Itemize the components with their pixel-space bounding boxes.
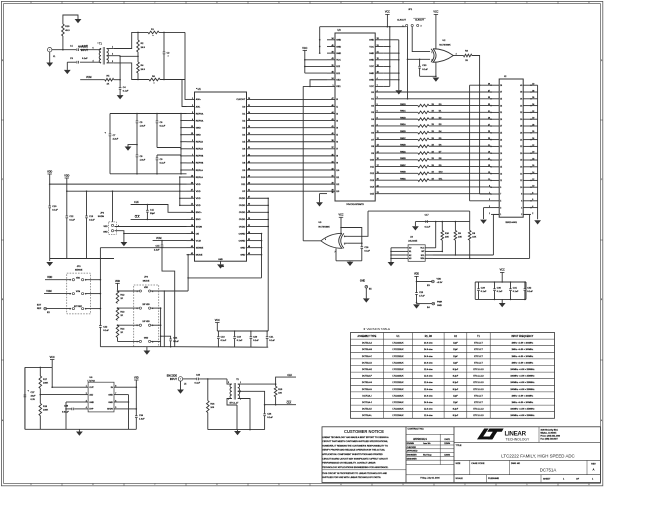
svg-text:VCC: VCC [433,11,438,14]
svg-text:42: 42 [191,253,193,255]
svg-text:CLKOUT: CLKOUT [236,99,246,101]
svg-text:9: 9 [489,186,490,188]
svg-text:1: 1 [240,382,241,384]
svg-text:NC7SV86K: NC7SV86K [319,226,331,228]
resistor R12 1K [116,291,119,303]
wire VDD rail2 [67,190,187,192]
svg-text:REFHB: REFHB [196,156,204,158]
svg-text:Phone: (408) 432-1900: Phone: (408) 432-1900 [541,436,560,438]
svg-text:AIN+: AIN+ [196,98,202,101]
svg-text:30: 30 [520,119,522,121]
svg-text:1: 1 [527,2,528,4]
svg-text:1.0uF: 1.0uF [140,126,146,128]
svg-text:AIN-: AIN- [196,105,201,108]
svg-text:12pF: 12pF [453,349,458,351]
svg-text:VCM: VCM [46,290,51,293]
wire U6 OUT to left node [52,386,80,388]
svg-text:REFLA: REFLA [196,176,204,179]
capacitor C30 0.1uF [494,282,496,289]
svg-text:ETC1-1-13: ETC1-1-13 [473,409,484,411]
svg-text:16: 16 [520,167,522,169]
ground under T2 [237,430,239,431]
svg-text:GND: GND [196,127,201,129]
svg-text:32015-4001: 32015-4001 [505,222,517,224]
wire REFH top rail [110,113,187,115]
node wire T1 pin1 up to R1 rail [114,32,148,48]
svg-text:8: 8 [93,484,94,486]
svg-text:2: 2 [532,213,533,215]
svg-text:17: 17 [488,158,490,160]
svg-text:34: 34 [331,38,333,40]
svg-text:DC751A-J: DC751A-J [362,401,372,404]
svg-text:38: 38 [331,140,333,142]
svg-text:0.1uF: 0.1uF [82,46,88,48]
wire ref pins rail [180,114,182,174]
resistor R2 24.9 [137,32,139,40]
resistor R4 24.9 [137,56,139,62]
svg-text:16: 16 [191,211,193,213]
resistor RN1B 33 [375,118,418,120]
svg-text:CIRCUIT THAT MEETS CUSTOMER-SU: CIRCUIT THAT MEETS CUSTOMER-SUPPLIED SPE… [322,440,388,443]
wire VDD feeder vertical [179,177,181,205]
capacitor C34 1.0uF [135,409,137,416]
capacitor C8 1.0uF [136,145,138,155]
wire U6 IN to V3D rail [122,386,136,388]
svg-text:15: 15 [488,165,490,167]
svg-text:Friday, July 02, 2004: Friday, July 02, 2004 [420,477,440,480]
svg-text:PWR: PWR [437,301,443,303]
wire AIN- vertical to U1 pin 2 [182,80,187,107]
resistor RN1A 33 [375,125,418,127]
svg-text:12.4 ohm: 12.4 ohm [424,409,433,411]
svg-text:CUSTOMER NOTICE: CUSTOMER NOTICE [344,429,384,434]
ground left of J2 [480,220,487,224]
svg-text:GND: GND [437,305,442,307]
wire OE2 jog [310,80,327,87]
svg-text:OGND: OGND [239,240,246,242]
resistor R10 10K [442,221,444,223]
svg-text:1/3 VDD: 1/3 VDD [142,321,150,323]
ground under E5 [363,298,370,302]
svg-text:CLKOUT: CLKOUT [415,20,425,22]
svg-text:29: 29 [500,119,502,121]
svg-text:VDD: VDD [47,170,52,173]
svg-text:VCM: VCM [196,240,201,242]
svg-text:1630 McCarthy Blvd.: 1630 McCarthy Blvd. [541,428,559,431]
svg-text:4.7uF: 4.7uF [419,295,425,297]
svg-text:33: 33 [488,104,490,106]
svg-text:VDD: VDD [76,277,81,279]
svg-text:2: 2 [431,60,432,62]
svg-text:33: 33 [500,105,502,107]
version table grid [351,333,555,419]
svg-text:5: 5 [115,407,116,409]
svg-text:2.2uF: 2.2uF [113,139,119,141]
svg-text:REFHB: REFHB [196,163,204,165]
svg-text:2: 2 [86,393,87,395]
svg-text:LTC2223LK: LTC2223LK [393,349,405,351]
border zone ticks right [600,119,602,121]
capacitor C29 0.1uF [478,282,480,289]
svg-text:38: 38 [520,92,522,94]
svg-text:17: 17 [500,160,502,162]
U2 VCC pin [435,46,437,49]
svg-text:8.2pF: 8.2pF [453,389,459,391]
capacitor C7 2.2uF [109,114,111,135]
resistor RN1D 33 [375,105,418,107]
wire ADJ to divider [40,394,80,396]
svg-text:12.4 ohm: 12.4 ohm [424,389,433,391]
wire T2 pin4 down [227,399,237,406]
wire clock branch to J2 pin 39 [470,84,491,86]
svg-text:47: 47 [191,190,193,192]
wire R19 to ground arrow [63,15,78,24]
svg-text:34: 34 [331,161,333,163]
svg-text:0.1uF: 0.1uF [422,69,428,71]
svg-text:CLK: CLK [287,401,292,404]
capacitor C6 0.1uF [156,114,158,122]
U5 ground pin and rail [335,248,337,260]
capacitor C23 0.1uF [183,378,197,380]
svg-text:BYP: BYP [89,409,94,411]
svg-text:* T1: * T1 [98,43,103,46]
svg-text:GND: GND [360,280,366,283]
svg-text:1: 1 [192,98,193,100]
svg-text:100MHz < A IN < 250MHz: 100MHz < A IN < 250MHz [510,388,534,391]
capacitor C20 0.1uF [250,330,252,332]
resistor R13 1K [116,308,119,320]
wire U3 VCC-group rail to top wire [319,27,321,53]
U2 ground pin [435,62,437,76]
wire T1 pin2 down to VCM node [119,56,121,80]
scale filename sheet row [454,474,600,476]
svg-text:7: 7 [377,85,378,87]
svg-text:VCC: VCC [420,248,425,250]
svg-text:8.2pF: 8.2pF [453,369,459,371]
capacitor C2 [163,32,165,52]
ground under C3 [66,62,68,70]
svg-text:VCC: VCC [336,60,341,62]
svg-text:VCC: VCC [500,269,505,272]
svg-text:12pF: 12pF [453,402,458,404]
svg-text:LTC2223LK: LTC2223LK [393,376,405,378]
svg-text:19: 19 [488,152,490,154]
svg-text:18: 18 [191,225,193,227]
svg-text:0.1uF: 0.1uF [364,250,370,252]
svg-text:DRAWN: DRAWN [407,442,415,445]
svg-text:100MHz < A IN < 250MHz: 100MHz < A IN < 250MHz [510,375,534,378]
svg-text:21: 21 [377,52,379,54]
svg-text:24.9 ohm: 24.9 ohm [424,349,433,351]
svg-text:100MHz < A IN < 250MHz: 100MHz < A IN < 250MHz [510,368,534,371]
svg-text:GND: GND [218,259,223,261]
svg-text:VDD: VDD [115,280,120,283]
svg-text:VDD: VDD [104,226,109,228]
svg-text:1MHz < A IN < 100MHz: 1MHz < A IN < 100MHz [511,394,533,397]
wire clock feed down to U5 input1 [348,211,368,236]
svg-text:6: 6 [217,2,218,4]
svg-text:VCM: VCM [156,237,161,240]
svg-text:5: 5 [228,382,229,384]
svg-text:0.01uF: 0.01uF [62,411,69,413]
node OE wire [124,233,187,235]
svg-text:12pF: 12pF [453,395,458,397]
svg-text:40: 40 [331,133,333,135]
title block outline [322,427,600,483]
svg-text:VCC: VCC [50,356,55,359]
svg-text:1: 1 [86,386,87,388]
svg-text:43: 43 [331,58,333,60]
svg-text:PERFORMANCE OR RELIABILITY. C: PERFORMANCE OR RELIABILITY. CONTACT LINE… [322,462,376,465]
svg-text:1: 1 [527,484,528,486]
svg-text:DC751A-D: DC751A-D [362,361,373,364]
wire U4 VCC to rail [433,247,436,249]
ground under J1 [49,52,51,63]
svg-text:DATE: DATE [445,438,451,441]
svg-text:LTC2224LK: LTC2224LK [393,409,405,411]
svg-text:V3D: V3D [134,376,139,379]
svg-text:4: 4 [521,207,522,209]
svg-text:9: 9 [192,168,193,170]
svg-text:23: 23 [488,138,490,140]
svg-text:7: 7 [500,194,501,196]
svg-text:31: 31 [377,45,379,47]
node wire T1 pin2 to R2/R4 junction [119,55,121,58]
svg-text:0.1uF: 0.1uF [527,291,533,293]
wire encode bottom rail [208,429,265,431]
svg-text:0: 0 [589,2,590,4]
svg-text:0.1uF: 0.1uF [497,291,503,293]
capacitor C33 0.1uF [419,59,421,61]
svg-text:+3.3V: +3.3V [437,282,443,284]
svg-text:ETC1-1T: ETC1-1T [230,402,240,404]
svg-text:ENC-: ENC- [196,219,202,221]
wire T2 pin2 to CLKB [238,391,296,404]
svg-text:OVDD: OVDD [239,219,246,221]
svg-text:SUPPLIED FOR USE WITH LINEAR T: SUPPLIED FOR USE WITH LINEAR TECHNOLOGY … [322,476,381,479]
wire top control wire to JP1 [320,26,406,28]
J2 right pins even [523,84,531,86]
svg-text:35: 35 [488,97,490,99]
svg-text:39: 39 [331,52,333,54]
capacitor C32 0.1uF [524,282,526,289]
svg-text:1: 1 [333,85,334,87]
svg-text:21: 21 [500,146,502,148]
capacitor C27 10uF 6.3V [24,367,26,395]
svg-text:Fax: (408) 434-0507: Fax: (408) 434-0507 [541,439,558,441]
svg-text:2: 2 [465,484,466,486]
svg-text:OVDD: OVDD [239,198,246,200]
wire SDA to J2 pin 2 [433,257,530,259]
capacitor C22 0.1uF [99,325,102,327]
svg-text:41: 41 [331,126,333,128]
terminal E3 VDD +3.3V [417,281,432,283]
svg-text:REFLA: REFLA [196,169,204,172]
wire REFL bottom rail [110,173,187,175]
svg-text:1MHz < A IN < 100MHz: 1MHz < A IN < 100MHz [511,401,533,404]
svg-text:VERIFY PROPER AND RELIABLE OPE: VERIFY PROPER AND RELIABLE OPERATION IN … [322,449,385,452]
svg-text:25: 25 [488,131,490,133]
svg-text:2.2uF: 2.2uF [154,249,160,251]
svg-text:1MHz < A IN < 100MHz: 1MHz < A IN < 100MHz [511,348,533,351]
svg-text:0.1uF: 0.1uF [513,291,519,293]
svg-text:R1, R6: R1, R6 [425,336,433,338]
wire U3 right GND rail [398,40,400,90]
svg-text:REFHA: REFHA [196,112,204,115]
wire OGND rail [261,234,263,278]
wire clock to J2 pin 7 [480,193,491,195]
svg-text:21: 21 [488,145,490,147]
svg-text:0.1uF: 0.1uF [267,417,273,419]
svg-text:5: 5 [489,199,490,201]
svg-text:1: 1 [403,25,404,27]
svg-text:10: 10 [191,175,193,177]
ground under U3 [316,202,323,206]
svg-text:10uF: 10uF [31,396,37,398]
svg-text:0.1uF: 0.1uF [481,291,487,293]
resistor R9 10K [455,221,457,223]
capacitor C11 33pF [147,204,149,206]
approvals table [453,427,455,483]
wire MODE select to U1 [151,290,188,292]
svg-text:3: 3 [86,400,87,402]
svg-text:5: 5 [500,201,501,203]
svg-text:7: 7 [489,192,490,194]
svg-text:RN1A: RN1A [400,123,406,126]
svg-text:7: 7 [155,2,156,4]
U3 right control pins [375,39,383,41]
svg-text:35: 35 [331,154,333,156]
wire AIN+ vertical to U1 pin 1 [185,32,187,99]
svg-text:2: 2 [521,214,522,216]
svg-text:LTC2234LK: LTC2234LK [393,402,405,404]
U3 left control pins [327,39,335,41]
svg-text:SENSE: SENSE [75,270,83,272]
svg-text:36: 36 [520,99,522,101]
svg-text:12.4 ohm: 12.4 ohm [424,369,433,371]
svg-text:VDD: VDD [196,184,201,186]
svg-text:HOWEVER, IT REMAINS THE CUSTOM: HOWEVER, IT REMAINS THE CUSTOMER'S RESPO… [322,444,388,447]
svg-text:TECHNOLOGY: TECHNOLOGY [506,437,530,441]
ground under U6 [78,429,80,431]
svg-text:37: 37 [500,92,502,94]
svg-text:GND: GND [240,247,245,249]
svg-text:5: 5 [279,484,280,486]
svg-text:CLK: CLK [135,216,140,219]
svg-text:VDD: VDD [196,198,201,200]
svg-text:12: 12 [191,204,193,206]
svg-text:10: 10 [520,187,522,189]
svg-text:GND: GND [336,46,341,48]
svg-text:37: 37 [331,147,333,149]
svg-text:DWG NO: DWG NO [511,463,521,465]
svg-text:CONTRACT NO.: CONTRACT NO. [408,428,425,431]
svg-text:36: 36 [331,192,333,194]
svg-text:A1: A1 [409,250,411,253]
svg-text:SHDN: SHDN [98,216,105,218]
svg-text:LTC2222LK: LTC2222LK [393,369,405,371]
svg-text:44: 44 [191,239,193,241]
svg-text:32: 32 [331,168,333,170]
resistor RN3B 33 [375,172,418,174]
wire U5 output to clock out net [303,240,321,242]
resistor R14 1K [116,325,119,337]
svg-text:LTC2224LK: LTC2224LK [393,395,405,397]
svg-text:12: 12 [520,180,522,182]
svg-text:0.1uF: 0.1uF [195,383,201,385]
svg-text:27: 27 [488,124,490,126]
svg-text:1: 1 [500,214,501,216]
svg-text:25: 25 [500,133,502,135]
svg-text:A2: A2 [409,254,411,257]
svg-text:LTC2222LK: LTC2222LK [393,343,405,345]
svg-text:44: 44 [331,112,333,114]
svg-text:GND: GND [144,338,149,340]
svg-text:8.2pF: 8.2pF [453,382,459,384]
ground under U2 [433,78,440,82]
svg-text:3: 3 [421,25,422,27]
wire JP1 pin area to U2 input2 [407,27,409,99]
wire ground rail to bypass caps [171,346,269,349]
svg-text:VDD: VDD [144,287,149,289]
svg-text:29: 29 [331,183,333,185]
wire U6 left rails [24,367,26,429]
svg-text:45: 45 [331,45,333,47]
resistor R18 100K [39,403,42,415]
svg-text:A: A [593,467,595,471]
svg-text:ASSEMBLY TYPE: ASSEMBLY TYPE [358,335,377,338]
svg-text:1.0uF: 1.0uF [140,160,146,162]
svg-text:ETC1-1-13: ETC1-1-13 [473,415,484,417]
svg-text:1MHz < A IN < 100MHz: 1MHz < A IN < 100MHz [511,342,533,345]
svg-text:12.4 ohm: 12.4 ohm [424,376,433,378]
capacitor C15 2.2uF [161,241,163,246]
svg-text:TITLE: TITLE [456,445,462,447]
resistor R3 33 [453,55,463,57]
wire J2 right ground rail [537,85,539,219]
resistor R8 10K [469,222,471,231]
svg-text:VCM: VCM [86,76,91,79]
wire bottom ground rail left [50,258,114,260]
svg-text:LINEAR TECHNOLOGY HAS MADE A B: LINEAR TECHNOLOGY HAS MADE A BEST EFFORT… [322,436,389,439]
capacitor C16 0.1uF [361,246,364,248]
svg-text:15: 15 [500,167,502,169]
svg-text:3: 3 [112,61,113,63]
Linear Technology logo [477,429,504,440]
svg-text:VCM: VCM [76,291,81,293]
T1 pin2 wire [107,55,121,57]
svg-text:9: 9 [31,484,32,486]
svg-text:DC751A-C: DC751A-C [362,355,373,358]
svg-text:RN2B: RN2B [400,145,406,147]
svg-text:3: 3 [403,484,404,486]
svg-text:DC751A-K: DC751A-K [362,408,373,411]
ground under JP2 [115,231,124,242]
svg-text:24.9 ohm: 24.9 ohm [424,362,433,364]
svg-text:24.9 ohm: 24.9 ohm [424,343,433,345]
svg-text:0.1uF: 0.1uF [103,330,109,332]
svg-text:11: 11 [488,179,490,181]
svg-text:CIRCUIT BOARD LAYOUT MAY SIGNI: CIRCUIT BOARD LAYOUT MAY SIGNIFICANTLY A… [322,457,388,460]
T1 pin1 wire [107,48,114,50]
svg-text:0.1uF: 0.1uF [173,341,179,343]
svg-text:A3: A3 [409,257,411,260]
svg-text:3: 3 [403,2,404,4]
ground right of J2 [534,220,541,224]
svg-text:31: 31 [500,112,502,114]
wire JP4 GND row to ground rail [151,340,161,342]
svg-text:RN3B: RN3B [400,172,406,174]
